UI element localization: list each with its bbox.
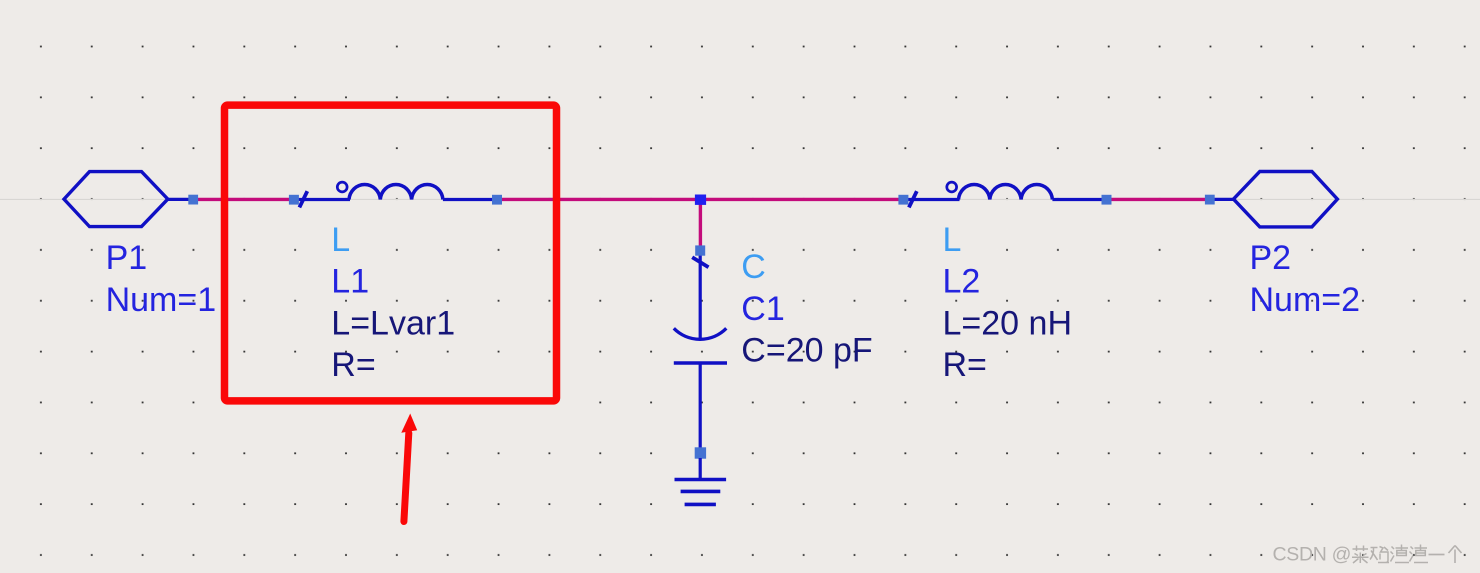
svg-text:L: L <box>943 221 962 259</box>
axis gridline <box>0 198 1480 200</box>
watermark glyph ge <box>1449 546 1462 564</box>
watermark glyph cai <box>1352 546 1369 564</box>
L2 pin 2 terminal <box>1102 195 1112 205</box>
svg-text:L=Lvar1: L=Lvar1 <box>331 304 455 342</box>
svg-text:R=: R= <box>943 346 987 384</box>
wire P1 to L1 <box>197 198 290 201</box>
highlight box (red annotation rectangle) <box>225 105 557 401</box>
svg-text:CSDN @: CSDN @ <box>1273 544 1352 566</box>
annotation arrow <box>401 414 417 522</box>
C1 pin 1 terminal <box>695 245 705 255</box>
L2 pin 1 terminal <box>898 195 908 205</box>
wire L2 to P2 <box>1111 198 1208 201</box>
svg-text:L2: L2 <box>943 263 981 301</box>
P1 pin terminal <box>188 195 198 205</box>
node A junction <box>695 195 706 205</box>
P2 pin terminal <box>1205 195 1215 205</box>
svg-text:C1: C1 <box>741 290 784 328</box>
watermark glyph zha2 <box>1410 545 1429 563</box>
svg-text:Num=1: Num=1 <box>106 281 217 319</box>
svg-text:Num=2: Num=2 <box>1250 281 1361 319</box>
L1 pin 2 terminal <box>492 195 502 205</box>
svg-text:L=20 nH: L=20 nH <box>943 304 1073 342</box>
ground <box>675 458 727 504</box>
svg-text:C=20 pF: C=20 pF <box>741 331 872 369</box>
watermark glyph ji <box>1370 547 1389 563</box>
inductor L1 <box>298 182 494 207</box>
inductor L2 <box>908 182 1104 207</box>
svg-text:L: L <box>331 221 350 259</box>
svg-text:P2: P2 <box>1250 239 1292 277</box>
svg-text:C: C <box>741 248 766 286</box>
wire node A to C1 <box>699 201 702 247</box>
watermark glyph zha1 <box>1391 545 1410 563</box>
capacitor C1 <box>674 255 727 449</box>
C1 pin 2 terminal <box>695 447 706 458</box>
watermark glyph yi <box>1429 554 1445 556</box>
wire L1 to node A <box>501 198 697 201</box>
svg-text:L1: L1 <box>331 263 369 301</box>
svg-text:P1: P1 <box>106 239 148 277</box>
wire node A to L2 <box>705 198 900 201</box>
port P2 <box>1214 172 1337 227</box>
svg-text:R=: R= <box>331 346 375 384</box>
port P1 <box>64 172 189 227</box>
L1 pin 1 terminal <box>289 195 299 205</box>
